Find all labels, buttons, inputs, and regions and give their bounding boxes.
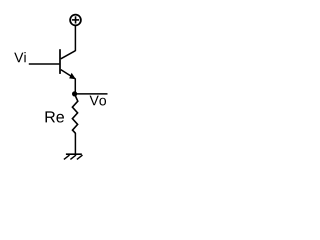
wire node to Vo: [75, 93, 108, 95]
net label Vi: [14, 52, 25, 62]
label Re: [46, 111, 64, 122]
wire resistor to ground: [74, 133, 76, 154]
ground: [64, 154, 83, 159]
power supply terminal (+): [70, 15, 81, 26]
wire emitter to output node: [74, 79, 76, 94]
resistor Re: [72, 95, 77, 134]
wire Vi to base: [29, 63, 60, 65]
transistor Q1 (NPN, emitter follower): [60, 49, 76, 79]
net label Vo: [90, 96, 106, 106]
wire collector to supply: [74, 26, 76, 51]
junction node (emitter / output): [72, 91, 77, 96]
